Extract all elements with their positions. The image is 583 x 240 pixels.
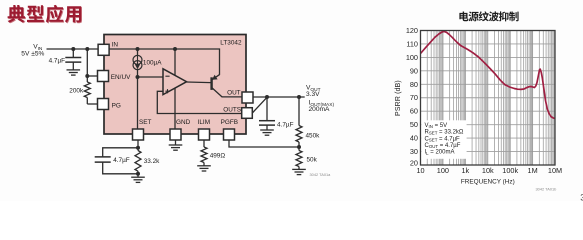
wire SET node down to SET pin xyxy=(137,77,139,129)
junction SET RC bottom xyxy=(136,172,140,176)
svg-text:10: 10 xyxy=(416,166,424,175)
pin ILIM xyxy=(198,119,210,140)
junction SET node xyxy=(136,75,140,79)
resistor R1 200k xyxy=(69,76,97,104)
pin OUTS xyxy=(223,107,252,119)
svg-text:ILIM: ILIM xyxy=(198,119,210,126)
svg-text:3042 TA01b: 3042 TA01b xyxy=(536,187,557,192)
svg-text:GND: GND xyxy=(176,119,191,126)
svg-text:4.7µF: 4.7µF xyxy=(113,157,130,164)
capacitor CSET 4.7µF xyxy=(95,148,138,174)
chart y-axis title PSRR (dB) xyxy=(395,80,402,116)
wire op-amp output to Q1 base xyxy=(187,81,211,84)
svg-text:1M: 1M xyxy=(528,166,538,175)
wire VIN rail to EN/UV xyxy=(87,49,97,76)
svg-text:PG: PG xyxy=(112,102,121,109)
svg-text:100: 100 xyxy=(437,166,449,175)
svg-text:COUT = 4.7µF: COUT = 4.7µF xyxy=(425,143,461,149)
svg-text:60: 60 xyxy=(410,107,418,116)
ground SET network xyxy=(131,174,145,183)
svg-text:70: 70 xyxy=(410,93,418,102)
svg-text:3.3V: 3.3V xyxy=(306,91,320,98)
note 3042 TA01b xyxy=(536,187,557,192)
stray page digit xyxy=(580,192,583,202)
chart gridlines xyxy=(421,31,556,166)
svg-text:4.7µF: 4.7µF xyxy=(277,122,294,129)
node VOUT output labels xyxy=(306,85,334,113)
svg-text:450k: 450k xyxy=(306,132,321,139)
pin PG xyxy=(98,99,121,110)
svg-text:90: 90 xyxy=(410,66,418,75)
resistor R5 33.2k xyxy=(135,148,160,174)
wire Q1 emitter to OUT pin xyxy=(222,96,243,98)
chart condition annotations xyxy=(425,123,464,156)
svg-text:VIN = 5V: VIN = 5V xyxy=(425,123,448,129)
wire OUTS sense diagonal xyxy=(252,97,267,113)
svg-text:LT3042: LT3042 xyxy=(220,40,242,47)
svg-text:IN: IN xyxy=(112,42,119,49)
resistor R4 499Ω (ILIM) xyxy=(201,140,225,166)
ground ILIM resistor xyxy=(197,166,211,171)
label LT3042 xyxy=(220,40,242,47)
junction divider midpoint xyxy=(297,145,301,149)
chart title 电源纹波抑制 xyxy=(459,11,518,21)
chart y-axis labels xyxy=(406,26,418,168)
pin EN/UV xyxy=(98,71,132,82)
junction rail current source xyxy=(136,47,140,51)
svg-text:OUT: OUT xyxy=(227,90,241,97)
svg-text:OUTS: OUTS xyxy=(223,107,241,114)
svg-text:PSRR (dB): PSRR (dB) xyxy=(395,80,402,116)
pin GND xyxy=(170,119,191,140)
svg-text:110: 110 xyxy=(406,40,418,49)
pin OUT xyxy=(227,90,253,104)
svg-text:CSET = 4.7µF: CSET = 4.7µF xyxy=(425,136,461,142)
note 3042 TA01a xyxy=(310,172,332,177)
junction input cap tap xyxy=(71,47,75,51)
chart axes border xyxy=(421,31,556,166)
svg-text:120: 120 xyxy=(406,26,418,35)
wire OUTS feedback to op-amp + input xyxy=(157,91,241,113)
svg-text:10k: 10k xyxy=(482,166,494,175)
svg-text:5V ±5%: 5V ±5% xyxy=(21,51,44,58)
chart x-axis title FREQUENCY (Hz) xyxy=(461,179,515,186)
svg-text:33.2k: 33.2k xyxy=(144,158,160,165)
svg-text:200mA: 200mA xyxy=(309,106,330,113)
svg-text:EN/UV: EN/UV xyxy=(111,74,131,81)
chart annotation backdrop xyxy=(421,120,466,159)
wire internal IN rail xyxy=(109,49,220,75)
svg-text:10M: 10M xyxy=(548,166,562,175)
heading 典型应用 xyxy=(8,5,82,24)
junction SET RC top xyxy=(136,146,140,150)
svg-text:50k: 50k xyxy=(307,157,318,164)
current source I1 100µA xyxy=(133,49,162,77)
wire internal gnd line xyxy=(174,49,176,129)
ground input cap xyxy=(67,62,81,75)
resistor R2 450k xyxy=(296,97,320,147)
svg-text:40: 40 xyxy=(410,134,418,143)
wire PGFB to divider xyxy=(229,140,299,147)
wire Q1 collector to rail xyxy=(219,74,221,76)
svg-text:100µA: 100µA xyxy=(143,60,162,67)
svg-text:100: 100 xyxy=(406,53,418,62)
svg-text:PGFB: PGFB xyxy=(221,119,238,126)
svg-text:30: 30 xyxy=(410,147,418,156)
svg-text:50: 50 xyxy=(410,120,418,129)
pin SET xyxy=(133,119,152,140)
ground COUT xyxy=(260,125,274,135)
op-amp A1 error amplifier xyxy=(163,69,187,95)
junction EN tap xyxy=(85,47,89,51)
junction COUT node xyxy=(265,95,269,99)
svg-text:3042 TA01a: 3042 TA01a xyxy=(310,172,332,177)
pin IN xyxy=(98,42,118,56)
wire SET node to op-amp inverting input xyxy=(138,76,164,78)
ground 50k xyxy=(292,169,306,174)
wire VIN to IN pin xyxy=(47,48,105,50)
wire OUT to VOUT xyxy=(253,96,305,98)
svg-text:200k: 200k xyxy=(69,87,84,94)
capacitor CIN 4.7µF xyxy=(49,49,82,64)
svg-text:80: 80 xyxy=(410,80,418,89)
svg-text:499Ω: 499Ω xyxy=(210,152,226,159)
chart PSRR plot area xyxy=(421,31,556,166)
svg-text:100k: 100k xyxy=(502,166,518,175)
capacitor COUT 4.7µF xyxy=(259,97,294,129)
junction 450k node xyxy=(297,95,301,99)
svg-text:1k: 1k xyxy=(461,166,469,175)
node VIN input terminal label xyxy=(21,44,44,58)
svg-text:FREQUENCY (Hz): FREQUENCY (Hz) xyxy=(461,179,515,186)
svg-text:RSET = 33.2kΩ: RSET = 33.2kΩ xyxy=(425,130,464,136)
chart PSRR curve xyxy=(421,31,556,118)
IC U1 LT3042 body xyxy=(104,35,246,135)
resistor R3 50k xyxy=(296,147,318,169)
junction rail gnd line xyxy=(173,47,177,51)
chart x-axis labels xyxy=(416,166,562,175)
ground GND pin xyxy=(169,140,183,150)
transistor Q1 pass device xyxy=(212,75,222,97)
pin PGFB xyxy=(221,119,238,140)
junction EN/UV xyxy=(85,74,89,78)
svg-text:IL = 200mA: IL = 200mA xyxy=(425,150,455,156)
wire SET pin to RC xyxy=(137,140,139,148)
svg-text:SET: SET xyxy=(139,119,152,126)
svg-text:4.7µF: 4.7µF xyxy=(49,57,66,64)
